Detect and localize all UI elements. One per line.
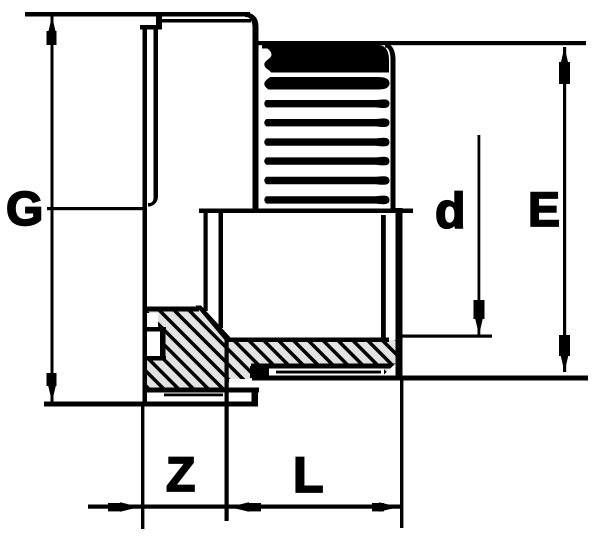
inner right wall line xyxy=(381,215,386,340)
neck wall line left-outer xyxy=(204,212,208,311)
threads: second thick band xyxy=(262,77,390,90)
arm recess step line xyxy=(251,364,399,369)
arm top face line xyxy=(226,338,389,343)
body: right edge of socket part with rounded top corner xyxy=(245,13,259,213)
E top arrow xyxy=(560,47,568,65)
hatched section: bottom arm xyxy=(226,340,399,366)
G dimension vertical line xyxy=(51,16,54,402)
G pointer line at socket mid xyxy=(47,207,147,210)
Z left arrow (points right at x142) xyxy=(120,502,140,511)
body: inner top line xyxy=(159,19,251,23)
block chamfer diagonal xyxy=(196,306,231,341)
body: inner left wall line with bottom curl xyxy=(148,28,158,207)
threads: white sliver in top band xyxy=(267,73,380,77)
d dimension vertical line xyxy=(478,135,481,335)
neck wall line left-inner xyxy=(219,212,224,328)
thread line 6 xyxy=(262,196,390,205)
bottom dimension line Z/L xyxy=(88,505,400,509)
arm recess white xyxy=(268,369,384,376)
thread envelope right line with top corner xyxy=(385,43,396,212)
hatched section: arm right rim xyxy=(383,364,399,379)
thread line 1 xyxy=(262,99,390,108)
white channel with scalloped crest boundary xyxy=(259,49,272,208)
d bottom extension line xyxy=(399,335,492,338)
Z right extension line xyxy=(225,388,229,521)
thread line 2 xyxy=(262,118,390,127)
arm tip white corner wedge xyxy=(383,364,396,376)
L right extension line xyxy=(400,379,403,528)
bottom lip white strip xyxy=(150,393,251,403)
bottom face line of block + G bottom extension line xyxy=(44,402,258,407)
bottom face line of arm + E bottom extension line xyxy=(252,376,588,381)
Z right arrow (points left at x227) xyxy=(229,502,249,511)
thread line 3 xyxy=(262,138,390,147)
hatched section: arm left rim xyxy=(226,364,270,379)
threads: top face line of stub + E top extension line xyxy=(257,41,586,45)
svg-text:d: d xyxy=(435,183,466,239)
Z left extension line xyxy=(141,403,144,529)
right edge below threads xyxy=(396,208,403,377)
svg-text:G: G xyxy=(6,183,43,236)
hatched section: bottom-left block xyxy=(146,307,229,390)
block hatch bottom line xyxy=(143,388,259,393)
body: top face line + G top extension line xyxy=(25,12,250,17)
d bottom arrow xyxy=(475,317,483,335)
L right arrow (points right at x400) xyxy=(379,502,399,511)
arm bottom-left step blob xyxy=(250,366,269,378)
block top face line xyxy=(143,307,199,312)
lip inner thin line xyxy=(164,394,223,397)
body: outer left edge xyxy=(143,25,148,403)
svg-text:L: L xyxy=(293,447,324,503)
svg-text:Z: Z xyxy=(166,449,195,502)
threads: solid black top band xyxy=(262,45,389,73)
svg-text:E: E xyxy=(528,184,560,237)
thread line 5 xyxy=(262,176,390,185)
arm groove far-side line xyxy=(276,371,381,374)
arm left wall xyxy=(225,336,229,396)
body: top-left step xyxy=(140,13,162,30)
G bottom arrow xyxy=(48,384,56,402)
G top arrow xyxy=(48,16,56,34)
E dimension vertical line xyxy=(563,47,566,372)
groove notch (white) in left block xyxy=(147,313,166,361)
thread line 4 xyxy=(262,157,390,166)
lip right edge xyxy=(252,388,259,406)
shoulder line + d pointer line xyxy=(199,209,413,214)
E bottom arrow xyxy=(560,354,568,372)
